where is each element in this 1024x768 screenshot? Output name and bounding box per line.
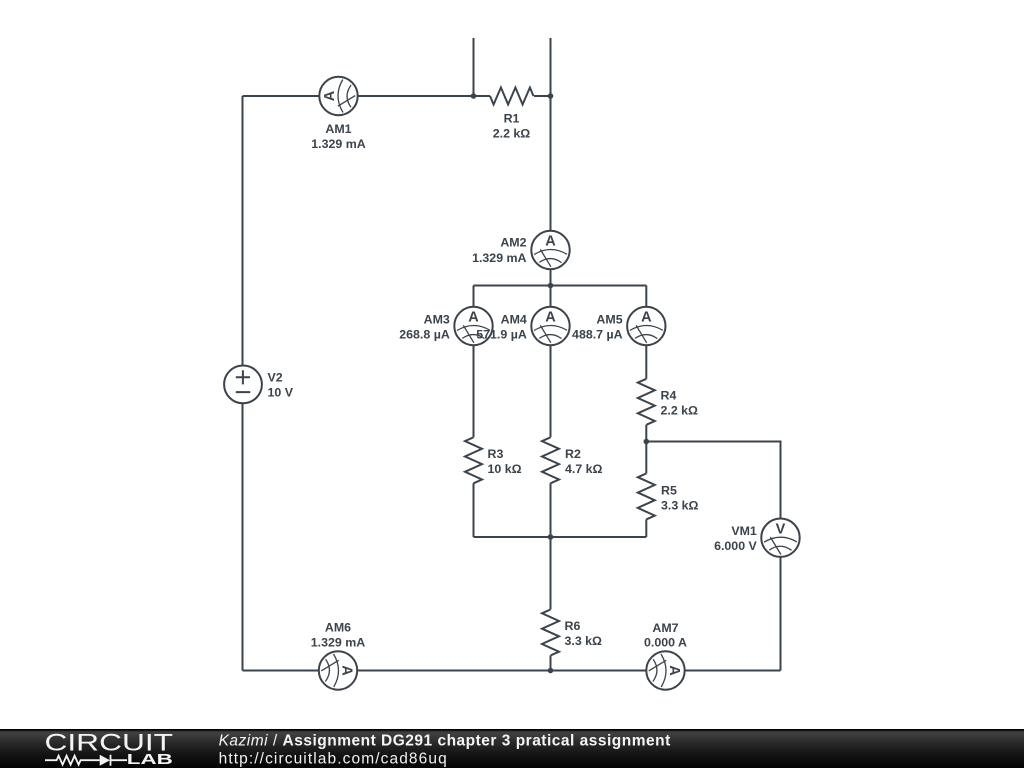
svg-text:A: A <box>641 310 652 326</box>
svg-text:1.329 mA: 1.329 mA <box>311 635 365 649</box>
svg-text:R2: R2 <box>565 447 581 461</box>
svg-text:http://circuitlab.com/cad86uq: http://circuitlab.com/cad86uq <box>219 751 448 768</box>
svg-text:AM5: AM5 <box>596 313 622 327</box>
svg-text:10 kΩ: 10 kΩ <box>488 462 522 476</box>
svg-text:A: A <box>468 310 479 326</box>
svg-text:1.329 mA: 1.329 mA <box>311 137 365 151</box>
svg-text:A: A <box>338 665 354 676</box>
svg-text:R3: R3 <box>488 447 504 461</box>
svg-text:268.8 µA: 268.8 µA <box>399 328 450 342</box>
svg-text:A: A <box>322 90 338 101</box>
svg-text:AM1: AM1 <box>325 122 351 136</box>
svg-text:A: A <box>545 310 556 326</box>
svg-text:AM3: AM3 <box>424 313 450 327</box>
svg-text:A: A <box>545 234 556 250</box>
svg-text:R4: R4 <box>661 388 677 402</box>
svg-text:R6: R6 <box>565 619 581 633</box>
svg-text:VM1: VM1 <box>731 524 757 538</box>
svg-text:10 V: 10 V <box>268 386 294 400</box>
svg-text:4.7 kΩ: 4.7 kΩ <box>565 462 603 476</box>
svg-text:AM2: AM2 <box>500 236 526 250</box>
svg-text:2.2 kΩ: 2.2 kΩ <box>493 127 531 141</box>
svg-text:Kazimi / Assignment DG291 chap: Kazimi / Assignment DG291 chapter 3 prat… <box>219 733 671 750</box>
svg-text:AM7: AM7 <box>652 621 678 635</box>
svg-text:488.7 µA: 488.7 µA <box>572 328 623 342</box>
svg-text:LAB: LAB <box>127 752 173 768</box>
svg-text:3.3 kΩ: 3.3 kΩ <box>565 634 603 648</box>
svg-text:A: A <box>666 665 682 676</box>
svg-text:V: V <box>776 521 786 537</box>
svg-text:3.3 kΩ: 3.3 kΩ <box>661 498 699 512</box>
svg-text:0.000 A: 0.000 A <box>644 636 687 650</box>
svg-text:R5: R5 <box>661 483 677 497</box>
svg-text:AM4: AM4 <box>501 313 527 327</box>
svg-text:AM6: AM6 <box>325 621 351 635</box>
svg-text:2.2 kΩ: 2.2 kΩ <box>661 403 699 417</box>
svg-text:R1: R1 <box>504 112 520 126</box>
svg-text:1.329 mA: 1.329 mA <box>472 251 526 265</box>
svg-text:571.9 µA: 571.9 µA <box>476 328 527 342</box>
svg-text:6.000 V: 6.000 V <box>714 539 757 553</box>
svg-text:V2: V2 <box>268 371 283 385</box>
